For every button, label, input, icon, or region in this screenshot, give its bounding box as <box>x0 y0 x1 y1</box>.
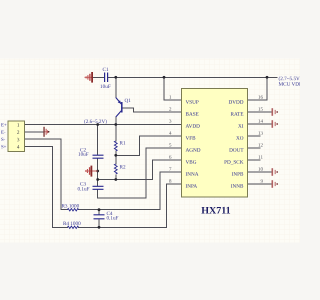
svg-text:3: 3 <box>17 137 20 143</box>
svg-text:E-: E- <box>1 130 6 136</box>
svg-text:C1: C1 <box>103 67 109 73</box>
svg-text:RATE: RATE <box>231 112 244 118</box>
svg-text:R3 1000: R3 1000 <box>61 203 79 209</box>
svg-text:R1: R1 <box>120 140 126 146</box>
svg-text:E+: E+ <box>1 122 7 128</box>
svg-text:INNB: INNB <box>231 184 244 190</box>
svg-text:15: 15 <box>258 107 264 113</box>
svg-text:XO: XO <box>236 136 244 142</box>
svg-text:12: 12 <box>258 143 264 149</box>
svg-text:INPA: INPA <box>185 184 197 190</box>
svg-text:VBG: VBG <box>185 160 196 166</box>
svg-text:1: 1 <box>17 123 20 129</box>
svg-text:S-: S- <box>1 137 6 143</box>
svg-text:MCU VDD: MCU VDD <box>279 82 300 88</box>
svg-text:HX711: HX711 <box>201 206 230 217</box>
svg-text:BASE: BASE <box>186 112 199 118</box>
svg-text:R4 1000: R4 1000 <box>63 221 81 227</box>
svg-text:VSUP: VSUP <box>186 100 199 106</box>
svg-text:0.1uF: 0.1uF <box>106 215 118 221</box>
svg-text:DOUT: DOUT <box>229 148 244 154</box>
svg-text:Q1: Q1 <box>125 98 132 104</box>
svg-text:0.1uF: 0.1uF <box>77 186 89 192</box>
svg-text:10uF: 10uF <box>100 84 111 90</box>
svg-text:11: 11 <box>258 155 263 161</box>
svg-text:4: 4 <box>17 145 20 151</box>
svg-text:VFB: VFB <box>186 136 197 142</box>
svg-text:XI: XI <box>238 124 244 130</box>
svg-text:AGND: AGND <box>185 148 200 154</box>
svg-text:INNA: INNA <box>185 172 198 178</box>
svg-text:S+: S+ <box>1 144 7 150</box>
svg-text:10: 10 <box>258 167 264 173</box>
svg-text:DVDD: DVDD <box>229 100 244 106</box>
svg-text:16: 16 <box>258 95 264 101</box>
svg-text:2: 2 <box>17 130 20 136</box>
svg-text:AVDD: AVDD <box>186 124 201 130</box>
svg-text:R2: R2 <box>119 164 125 170</box>
svg-text:13: 13 <box>258 131 264 137</box>
svg-text:PD_SCK: PD_SCK <box>224 160 244 166</box>
svg-text:INPB: INPB <box>232 172 244 178</box>
svg-text:10uF: 10uF <box>78 152 89 158</box>
svg-text:(2.6~5.2V): (2.6~5.2V) <box>84 119 107 125</box>
svg-text:14: 14 <box>258 119 264 125</box>
